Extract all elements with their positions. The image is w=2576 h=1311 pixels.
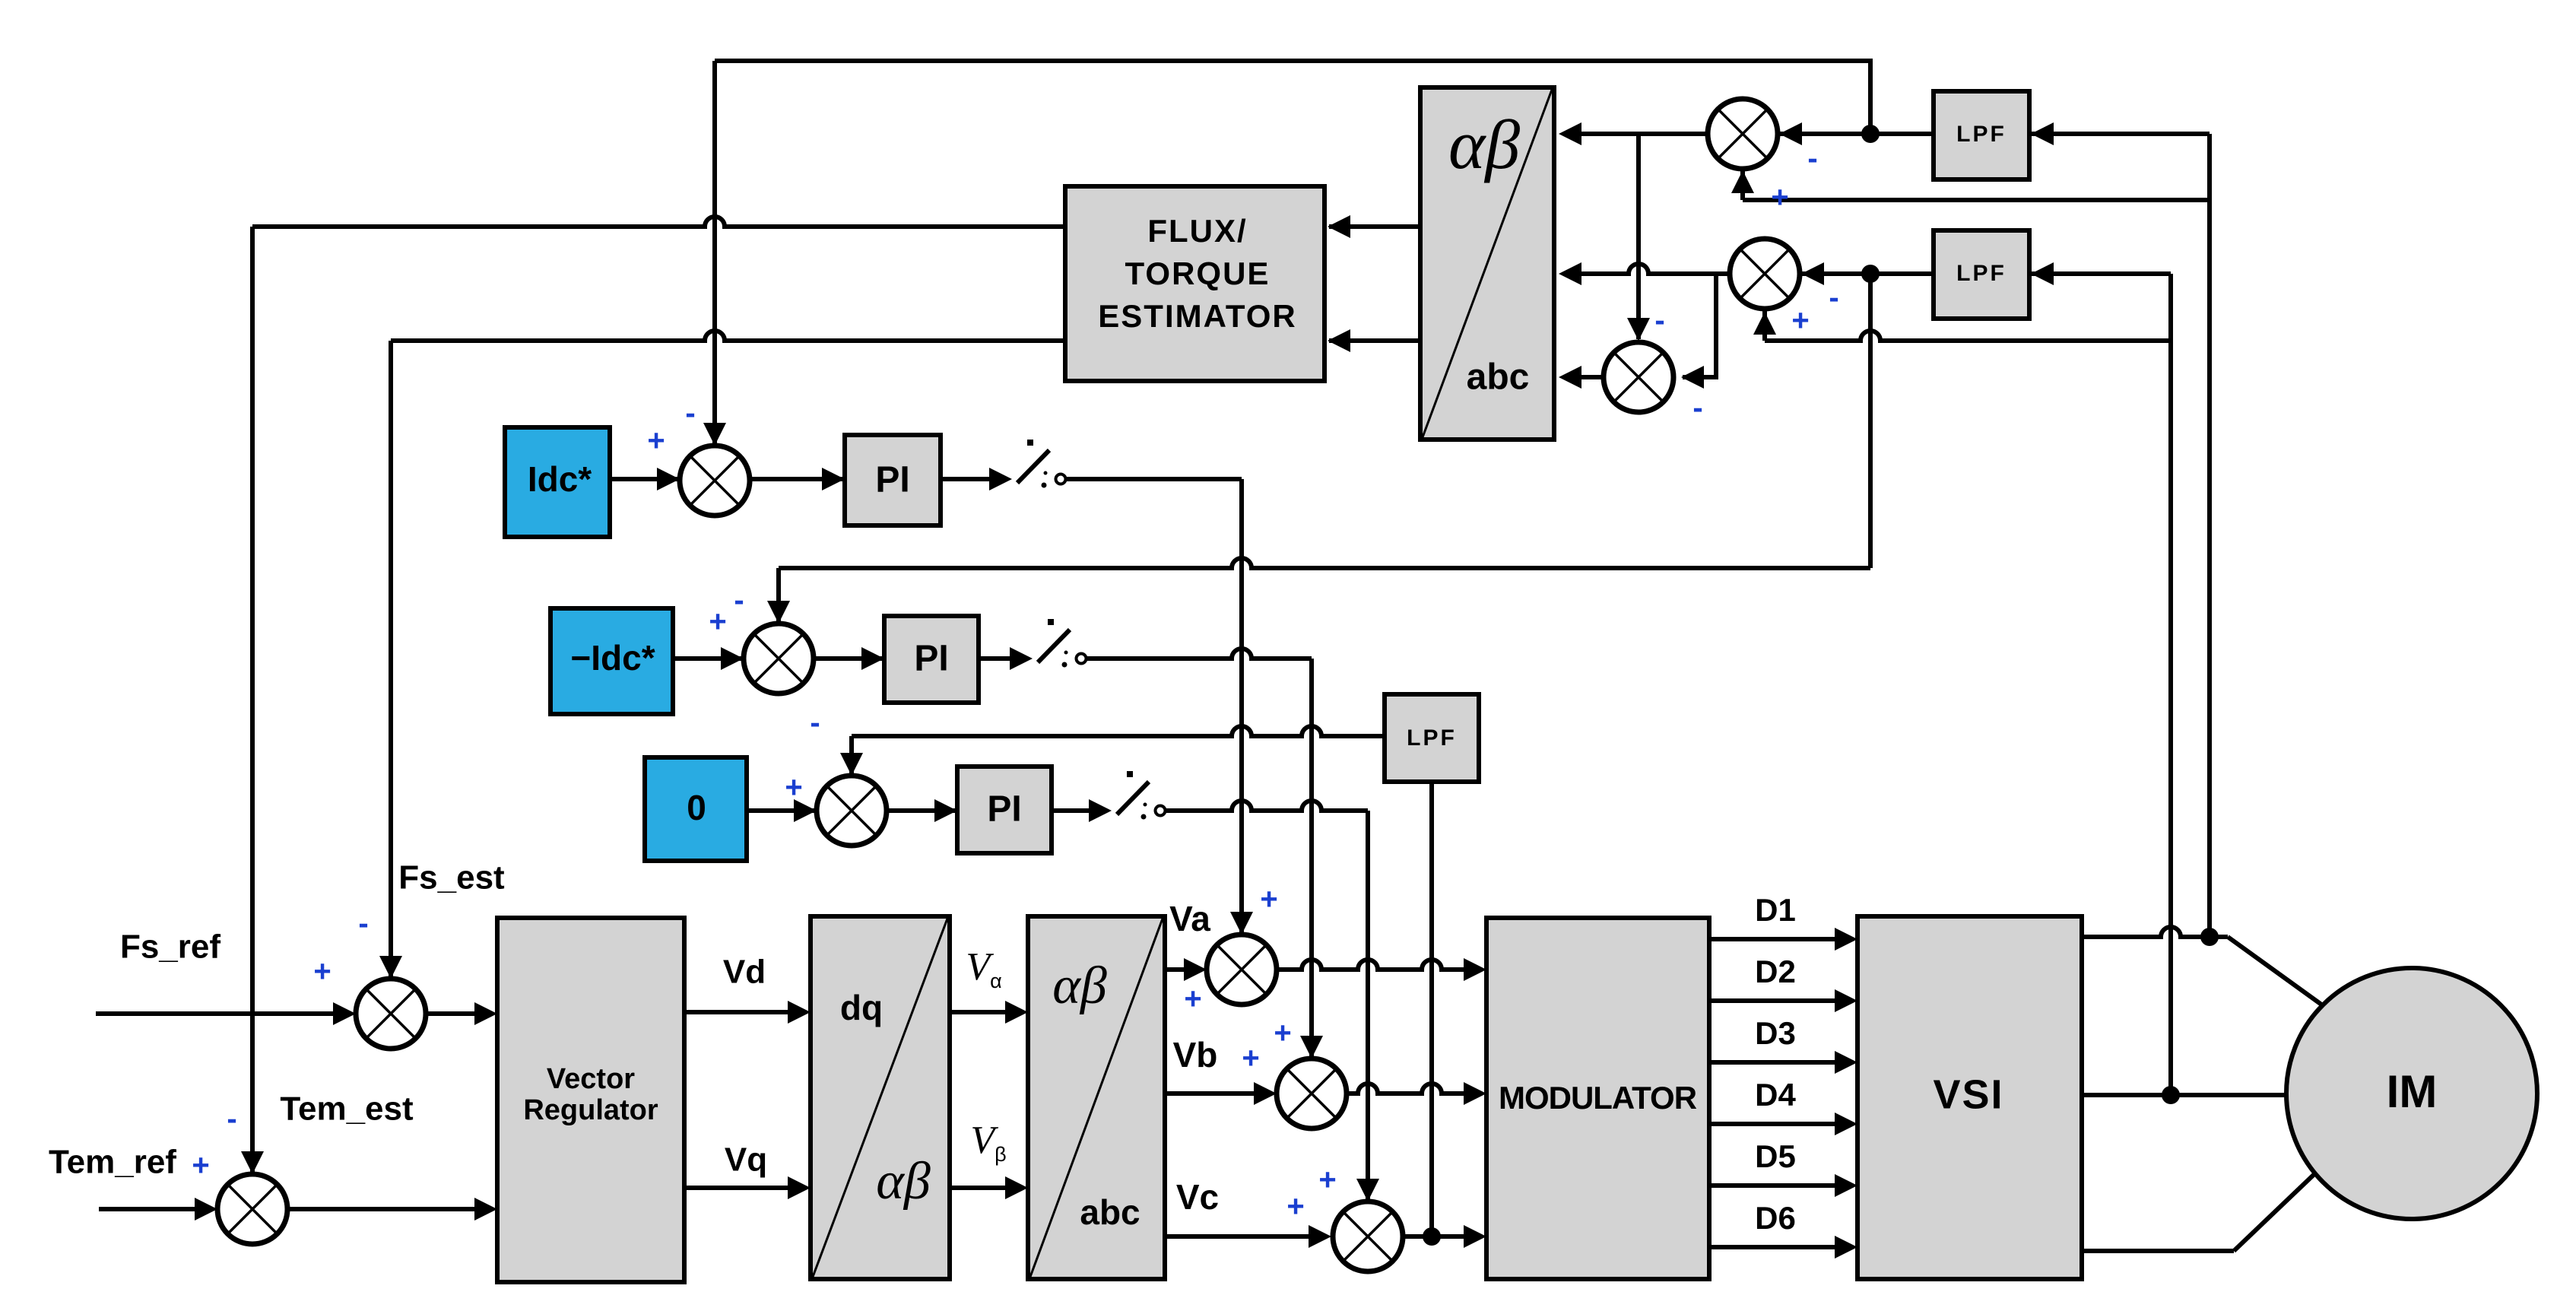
- wire Valpha: [950, 1010, 1022, 1014]
- diagonal of top converter: [1423, 90, 1552, 437]
- svg-text:Vd: Vd: [723, 954, 766, 991]
- summer Va add: [1207, 935, 1277, 1005]
- summer S2 (phase b hpf): [1730, 239, 1800, 309]
- wire vertical x2855 phase-b tap: [2168, 274, 2173, 1095]
- summer Fs error: [356, 979, 426, 1049]
- svg-text:αβ: αβ: [1448, 106, 1520, 183]
- arrowhead D4 into VSI: [1835, 1113, 1857, 1135]
- wire vertical x2906 phase-a tap: [2207, 134, 2212, 937]
- summer Tem error: [217, 1174, 287, 1244]
- arrowhead into FLUX input 2: [1328, 329, 1350, 352]
- arrowhead into PI1: [822, 468, 845, 490]
- svg-text:Idc*: Idc*: [528, 459, 592, 499]
- svg-text:+: +: [1318, 1163, 1336, 1197]
- summer A (Idc* error): [680, 446, 750, 516]
- svg-text:Fs_est: Fs_est: [398, 859, 505, 897]
- block PI1: [845, 435, 941, 525]
- wire D4: [1709, 1122, 1851, 1126]
- svg-text:D2: D2: [1755, 954, 1796, 989]
- wire Vb from ab2 to summer Vb: [1165, 1091, 1271, 1096]
- block 0 reference: [645, 757, 747, 861]
- block LPF2: [1934, 230, 2029, 319]
- arrowhead into S1 right: [1779, 122, 1802, 145]
- svg-text:+: +: [647, 424, 665, 458]
- svg-text:-: -: [685, 397, 695, 430]
- svg-text:-: -: [358, 907, 368, 941]
- svg-text:D5: D5: [1755, 1138, 1796, 1174]
- block Vector Regulator: [497, 918, 684, 1282]
- summer S1 (phase a hpf): [1708, 99, 1778, 169]
- block VSI: [1857, 916, 2082, 1279]
- diagonal of dq converter: [813, 919, 947, 1277]
- wire -Idc* to summer B: [673, 656, 745, 661]
- wire summer Vc to MODULATOR: [1403, 1234, 1480, 1239]
- svg-text:Tem_ref: Tem_ref: [49, 1144, 176, 1181]
- junction dot phase B tap: [2162, 1086, 2180, 1104]
- wire PI1 to switch1: [941, 477, 994, 481]
- block PI2: [884, 616, 979, 703]
- wire Vc from ab2 to summer Vc: [1165, 1234, 1325, 1239]
- arrowhead into summer Fs top: [379, 956, 402, 979]
- wire phase A: [2082, 927, 2228, 937]
- arrowhead into LPF2 right: [2031, 262, 2054, 285]
- svg-text:LPF: LPF: [1956, 261, 2007, 286]
- wire summer Vb to MODULATOR: [1347, 1084, 1480, 1094]
- svg-text:+: +: [785, 771, 802, 805]
- arrowhead Vb into MODULATOR: [1464, 1082, 1486, 1105]
- wire ab->FLUX input 2: [1329, 338, 1420, 343]
- svg-text:Vector: Vector: [547, 1063, 635, 1095]
- wire vertical x940 down into summer A top: [712, 61, 717, 444]
- wire S1 plus input from x2906: [1743, 198, 2210, 202]
- arrowhead Vc into MODULATOR: [1464, 1225, 1486, 1248]
- wire ab->FLUX input 1: [1329, 224, 1420, 229]
- wire Tem_ref input: [99, 1207, 211, 1211]
- arrowhead Va into MODULATOR: [1464, 958, 1486, 981]
- wire summer C to PI3: [887, 808, 959, 813]
- svg-text:αβ: αβ: [1052, 957, 1107, 1015]
- block Idc* reference: [505, 427, 610, 537]
- arrowhead into summer Vc top: [1356, 1179, 1379, 1201]
- wire Vq: [684, 1186, 804, 1190]
- arrowhead S2 out into ab block: [1559, 262, 1581, 285]
- junction dot phase A tap: [2200, 928, 2219, 946]
- diagonal of bottom converter: [1030, 919, 1163, 1277]
- wire Fs_est: FLUX left to x514 then down to summer Fs: [391, 331, 1065, 341]
- svg-text:+: +: [1184, 982, 1201, 1016]
- wire summer A to PI1: [750, 477, 846, 481]
- summer C (zero-seq error): [817, 776, 887, 846]
- arrowhead into summer Vb left: [1254, 1082, 1277, 1105]
- arrowhead into S2 right: [1801, 262, 1824, 285]
- wire LPF2 input from vertical x2855: [2031, 271, 2171, 276]
- wire phase B: [2082, 1093, 2289, 1097]
- svg-text:+: +: [1286, 1190, 1304, 1224]
- svg-text:αβ: αβ: [876, 1152, 931, 1211]
- junction dot d1 LPF1 line: [1861, 125, 1880, 143]
- svg-text:-: -: [1692, 392, 1702, 425]
- svg-text:0: 0: [687, 788, 706, 827]
- arrowhead Vd into dq: [788, 1001, 811, 1024]
- switch SW2: [1010, 619, 1087, 670]
- arrowhead D2 into VSI: [1835, 989, 1857, 1012]
- svg-text:+: +: [1771, 181, 1788, 214]
- svg-text:LPF: LPF: [1956, 122, 2007, 147]
- svg-text:-: -: [734, 584, 744, 617]
- wire D1: [1709, 937, 1851, 941]
- summer B (-Idc* error): [744, 624, 814, 694]
- wire LPF3 output left to summer C top: [852, 726, 1385, 736]
- svg-text:-: -: [1829, 281, 1838, 315]
- wire 0 to summer C: [747, 808, 818, 813]
- wire LPF2 output to S2 via dot: [1801, 271, 1934, 276]
- arrowhead S3 out into ab block: [1559, 366, 1581, 389]
- arrowhead D3 into VSI: [1835, 1051, 1857, 1074]
- arrowhead into FLUX input 1: [1328, 215, 1350, 238]
- svg-text:-: -: [1654, 304, 1664, 338]
- wire Tem_est: FLUX left to x332 then down to summer Tem: [252, 217, 1065, 227]
- svg-text:+: +: [1274, 1017, 1291, 1050]
- wire branch x2155 from S1 output down to summer S3 top: [1636, 134, 1641, 339]
- block MODULATOR: [1486, 918, 1709, 1279]
- arrowhead into LPF1 right: [2031, 122, 2054, 145]
- wire branch x2257 down to summer S3 right: [1683, 274, 1716, 377]
- svg-text:Va: Va: [1169, 899, 1210, 938]
- wire summer Tem to Vector Regulator: [287, 1207, 491, 1211]
- wire Vd: [684, 1010, 804, 1014]
- wire summer S1 output to ab block: [1563, 132, 1708, 136]
- arrowhead into PI2: [861, 647, 884, 670]
- svg-text:abc: abc: [1080, 1192, 1140, 1232]
- block PI3: [957, 767, 1052, 853]
- wire switch1 to x1633 corner, down to summer Va top: [1066, 477, 1242, 481]
- wire summer S3 output to ab block: [1563, 375, 1604, 379]
- block FLUX/TORQUE ESTIMATOR: [1065, 186, 1324, 381]
- svg-text:VSI: VSI: [1933, 1071, 2003, 1117]
- arrowhead into summer S3 top: [1627, 318, 1650, 341]
- wire summer B to PI2: [814, 656, 886, 661]
- arrowhead Valpha into ab2: [1005, 1001, 1028, 1024]
- arrowhead into summer Tem left: [195, 1198, 217, 1221]
- arrowhead S1 out into ab block: [1559, 122, 1581, 145]
- arrowhead Vbeta into ab2: [1005, 1176, 1028, 1199]
- svg-text:PI: PI: [914, 639, 948, 679]
- svg-text:dq: dq: [840, 988, 883, 1027]
- junction dot Vc tap to LPF3: [1423, 1227, 1441, 1246]
- induction machine IM: [2286, 968, 2537, 1219]
- block alpha-beta/abc converter (bottom): [1028, 916, 1165, 1279]
- wire Fs_ref input: [96, 1011, 350, 1016]
- svg-text:+: +: [1260, 883, 1277, 916]
- wire summer S2 output to ab block: [1563, 264, 1730, 274]
- arrowhead into summer B top: [767, 601, 790, 624]
- block dq/alpha-beta converter: [811, 916, 950, 1279]
- arrowhead into S1 bottom: [1731, 170, 1754, 193]
- arrowhead Tem into VR: [474, 1198, 497, 1221]
- svg-text:Vc: Vc: [1176, 1177, 1219, 1217]
- wire S2 plus input from x2855: [1765, 331, 2171, 341]
- svg-text:ESTIMATOR: ESTIMATOR: [1098, 298, 1296, 334]
- svg-text:LPF: LPF: [1407, 725, 1457, 751]
- arrowhead into summer A left: [657, 468, 680, 490]
- svg-text:Vq: Vq: [725, 1141, 767, 1179]
- arrowhead into summer C top: [840, 753, 863, 776]
- wire D6: [1709, 1245, 1851, 1249]
- wire D5: [1709, 1183, 1851, 1188]
- wire LPF1 input from vertical x2906: [2031, 132, 2210, 136]
- arrowhead into summer Vc left: [1309, 1225, 1331, 1248]
- svg-text:Fs_ref: Fs_ref: [120, 928, 220, 966]
- arrowhead D5 into VSI: [1835, 1174, 1857, 1197]
- arrowhead into summer Va top: [1230, 912, 1253, 935]
- wire LPF3 bottom tap down to Vc line: [1429, 782, 1434, 1236]
- arrowhead into summer Va left: [1184, 958, 1207, 981]
- wire switch3 to x1799 corner, down to summer Vc top: [1166, 801, 1368, 811]
- wire Idc* to summer A: [610, 477, 681, 481]
- svg-text:MODULATOR: MODULATOR: [1499, 1080, 1697, 1116]
- svg-text:+: +: [1242, 1042, 1259, 1075]
- svg-text:D3: D3: [1755, 1015, 1796, 1051]
- svg-text:+: +: [192, 1149, 209, 1182]
- block LPF3: [1385, 694, 1479, 782]
- arrowhead Fs into VR: [474, 1002, 497, 1025]
- junction dot d2 LPF2 line: [1861, 265, 1880, 283]
- wire switch2 to x1725 corner, down to summer Vb top: [1087, 649, 1312, 659]
- arrowhead into summer C left: [794, 799, 817, 822]
- summer S3 (phase c): [1604, 342, 1673, 412]
- arrowhead into summer Tem top: [241, 1151, 264, 1174]
- svg-text:PI: PI: [875, 460, 909, 500]
- arrowhead D6 into VSI: [1835, 1236, 1857, 1259]
- wire from dot2 down and left to summer B top: [1868, 274, 1873, 568]
- arrowhead into S2 bottom: [1753, 312, 1776, 335]
- switch SW1: [989, 440, 1066, 490]
- svg-text:FLUX/: FLUX/: [1147, 213, 1247, 249]
- block LPF1: [1934, 91, 2029, 179]
- wire summer Fs to Vector Regulator: [426, 1011, 491, 1016]
- wire PI2 to switch2: [979, 656, 1014, 661]
- svg-text:+: +: [1791, 304, 1809, 338]
- arrowhead into PI3: [934, 799, 957, 822]
- svg-text:abc: abc: [1467, 357, 1530, 398]
- summer Vb add: [1277, 1059, 1347, 1128]
- wire D2: [1709, 998, 1851, 1003]
- svg-text:−Idc*: −Idc*: [570, 638, 655, 678]
- arrowhead into summer A top: [703, 423, 726, 446]
- wire D3: [1709, 1060, 1851, 1065]
- wire phase C: [2082, 1249, 2234, 1253]
- svg-text:D6: D6: [1755, 1200, 1796, 1236]
- wire Va from ab2 to summer Va: [1165, 967, 1201, 972]
- arrowhead Vq into dq: [788, 1176, 811, 1199]
- svg-text:+: +: [313, 955, 331, 989]
- wire Vbeta: [950, 1186, 1022, 1190]
- svg-text:PI: PI: [987, 789, 1021, 830]
- block -Idc* reference: [550, 608, 673, 714]
- switch SW3: [1089, 771, 1166, 822]
- arrowhead into S3 right: [1681, 366, 1704, 389]
- svg-text:Regulator: Regulator: [523, 1094, 658, 1126]
- svg-text:-: -: [1807, 142, 1817, 176]
- block alpha-beta/abc converter (top): [1420, 87, 1554, 440]
- svg-text:D1: D1: [1755, 892, 1796, 928]
- svg-text:-: -: [227, 1103, 236, 1136]
- wire PI3 to switch3: [1052, 808, 1093, 813]
- svg-text:Vb: Vb: [1173, 1035, 1218, 1075]
- wire LPF1 output to S1 via dot: [1779, 132, 1934, 136]
- svg-text:Tem_est: Tem_est: [280, 1090, 414, 1128]
- wire summer Va to MODULATOR: [1277, 960, 1480, 970]
- summer Vc add: [1333, 1201, 1403, 1271]
- svg-text:-: -: [810, 706, 820, 740]
- arrowhead into summer Fs left: [333, 1002, 356, 1025]
- svg-text:+: +: [709, 605, 726, 639]
- svg-text:TORQUE: TORQUE: [1125, 256, 1271, 291]
- arrowhead into summer B left: [721, 647, 744, 670]
- wire top feedback (summerA feed) from x940 to x2460: [715, 61, 1870, 134]
- svg-text:IM: IM: [2387, 1066, 2438, 1117]
- svg-text:D4: D4: [1755, 1077, 1796, 1113]
- arrowhead D1 into VSI: [1835, 928, 1857, 951]
- arrowhead into summer Vb top: [1300, 1036, 1323, 1059]
